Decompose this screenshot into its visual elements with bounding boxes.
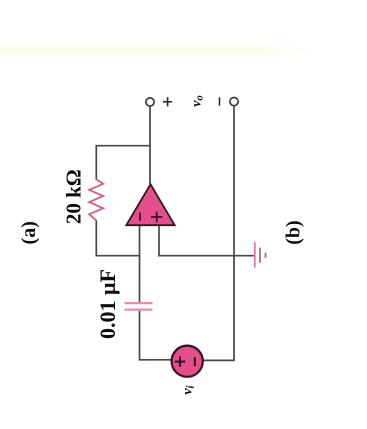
label + at output (163, 97, 172, 106)
op-amp noninverting mark (plus) (156, 212, 158, 223)
wire: feedback left vertical lower (95, 220, 97, 256)
yellow highlight rule faint lower band (0, 55, 280, 58)
terminal node - (right) (230, 98, 238, 106)
wire: bottom-left horizontal (feedback to inverting node) (96, 255, 141, 257)
source minus mark (rotated) (194, 357, 196, 366)
svg-text:0.01 μF: 0.01 μF (95, 269, 120, 339)
source Vi circle (172, 346, 203, 377)
source plus mark (179, 357, 181, 367)
yellow highlight rule (0, 46, 313, 54)
ground symbol (254, 242, 256, 267)
wire: capacitor to source corner (140, 311, 174, 360)
wire: right terminal down to bottom rail (201, 106, 234, 360)
svg-text:vi: vi (181, 385, 197, 394)
label - at output (rotated minus) (219, 97, 221, 105)
wire: feedback top horizontal (96, 145, 151, 147)
terminal node + (left) (146, 98, 154, 106)
op-amp inverting mark (rotated minus) (139, 212, 141, 220)
wire: output terminal to op-amp apex (149, 107, 151, 184)
svg-text:20 kΩ: 20 kΩ (62, 169, 86, 224)
svg-text:(b): (b) (283, 220, 305, 244)
svg-text:(a): (a) (18, 221, 40, 244)
wire: noninverting input lead (158, 226, 160, 257)
wire: noninverting input to ground (158, 255, 255, 257)
capacitor C plates (125, 302, 153, 304)
wire: feedback left vertical upper (95, 145, 97, 180)
wire: inverting input lead down through node to capacitor (139, 226, 141, 303)
resistor R 20k zigzag (89, 179, 103, 220)
svg-text:vo: vo (189, 95, 205, 106)
op-amp U1 triangle (126, 184, 174, 225)
